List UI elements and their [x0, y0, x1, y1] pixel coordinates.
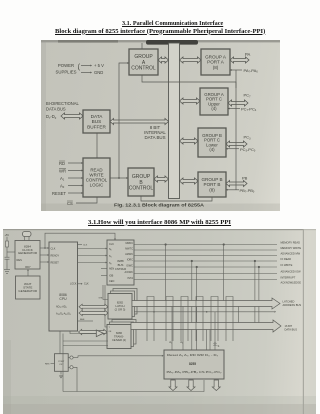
svg-text:8286: 8286 [116, 331, 122, 335]
block PORT B: GROUP B PORT B (8) [198, 172, 226, 197]
svg-text:S2: S2 [109, 262, 112, 266]
wire: group A control to port C upper (over bus) [142, 75, 236, 88]
svg-text:Fig. 12.3.1 Block diagram of 8: Fig. 12.3.1 Block diagram of 8255A [114, 203, 205, 208]
svg-text:IORC: IORC [127, 258, 133, 261]
svg-text:D7-D0: D7-D0 [46, 114, 57, 120]
svg-text:(4): (4) [209, 147, 215, 152]
bus arrow: internal bus to port A [180, 57, 202, 63]
stub IOB pin [101, 275, 107, 277]
pin CS input to rw logic [67, 197, 97, 206]
svg-text:PC3: PC3 [244, 135, 252, 141]
wire CLK 8284 to 8086 [40, 247, 49, 249]
wire lattice vertical pair 1 [147, 297, 154, 342]
ground: reset capacitor ground [4, 270, 10, 274]
wire: right vertical line [235, 70, 237, 190]
svg-text:SUPPLIES: SUPPLIES [55, 70, 76, 75]
block U-8086: 8086 CPU [49, 242, 78, 331]
svg-text:IOB: IOB [109, 275, 114, 278]
svg-text:PA: PA [245, 52, 250, 57]
label CLK stub on 8086 right edge [78, 245, 88, 247]
photo top edge shadow [41, 40, 280, 45]
block PORT C upper: GROUP A PORT C Upper (4) [200, 88, 228, 115]
wire tap A1 to 8255 [169, 307, 172, 351]
svg-text:S1: S1 [109, 255, 112, 259]
svg-text:INTERRUPT: INTERRUPT [281, 276, 296, 280]
svg-text:S: S [218, 344, 220, 348]
pin RD input to rw logic [59, 161, 83, 166]
bus arrow: port A output of 8255 [169, 380, 177, 391]
wire lattice vertical pair 3 [181, 297, 188, 342]
wire: data bus buffer to rw control logic [96, 133, 98, 158]
control bus line MEMORY WRITE [134, 246, 301, 250]
block U-8284: 8284 CLOCK GENERATOR [15, 241, 40, 270]
label: 8 BIT INTERNAL DATA BUS [144, 125, 166, 140]
junction drop IOWC right [258, 266, 260, 330]
block U-DBB: DATA BUS BUFFER [83, 110, 110, 133]
svg-text:CLK: CLK [109, 243, 114, 246]
block U-8255: 8255 PPI [164, 350, 224, 379]
control bus line IO WRITE [134, 263, 293, 267]
control bus line INTERRUPT [134, 276, 301, 285]
heading: section title [122, 20, 223, 27]
stub AEN pin [101, 268, 107, 270]
wire small box lower pin run [73, 367, 77, 391]
svg-text:(2 OR 3): (2 OR 3) [115, 308, 126, 312]
wire status S0 8086 to 8288 [78, 248, 108, 250]
svg-text:RESET: RESET [52, 191, 66, 196]
bus arrow: D7-D0 to data bus buffer [61, 113, 83, 119]
pin WR input to rw logic [59, 168, 83, 173]
wire lattice vertical pair 4 [196, 297, 203, 342]
svg-text:BHE: BHE [80, 319, 85, 321]
wire gate input from 8086 bottom [70, 331, 96, 334]
block U-GB: GROUP B CONTROL [128, 168, 154, 196]
label RES of small box [45, 364, 55, 366]
bus arrow: 8086 addr/status second [79, 310, 108, 315]
svg-text:CONTROL: CONTROL [131, 66, 156, 72]
bus arrow: port B output of 8255 [187, 380, 195, 391]
svg-text:IO WRITE: IO WRITE [281, 263, 293, 267]
svg-text:WR: WR [59, 168, 66, 173]
wire CLK loop over 8086 to 8288 [44, 233, 116, 249]
junction drop IOWC to 8255 WR [196, 266, 198, 350]
svg-text:RES: RES [17, 258, 23, 262]
wire reset to 8255 [73, 355, 163, 358]
bus channel: latched address bus [132, 298, 301, 309]
svg-text:READY: READY [51, 255, 60, 258]
block U-8286 transceiver stack shadows [110, 320, 137, 347]
bus arrow: port C output of 8255 [212, 380, 220, 391]
svg-text:A0: A0 [60, 183, 65, 189]
block U-8282: 8282 LATCH (2 OR 3) [108, 294, 132, 320]
svg-text:+5V: +5V [5, 234, 10, 237]
junction drop from MRDC at x=165.6 [165, 243, 167, 300]
svg-text:DATA BUS: DATA BUS [46, 107, 66, 112]
control bus line ADVANCED MW [134, 252, 301, 256]
svg-text:ADVANCED IOW: ADVANCED IOW [281, 270, 302, 274]
svg-text:AEN: AEN [109, 268, 114, 271]
wire bottom long run to 8255 [63, 380, 204, 392]
junction drop from MRDC at x=223.7 [223, 243, 225, 300]
wire status S2 8086 to 8288 [78, 262, 108, 264]
pin RESET input to rw logic [52, 191, 83, 196]
photo 2 bottom shadow [3, 340, 316, 414]
svg-text:GENERATOR: GENERATOR [18, 251, 38, 255]
svg-text:POWER: POWER [58, 63, 74, 68]
block U-8282 latch stack shadows [111, 289, 138, 317]
wire RESET 8284 to 8086 [40, 261, 49, 263]
svg-text:(8): (8) [209, 187, 215, 192]
svg-text:S0: S0 [109, 248, 112, 252]
svg-text:MWTC: MWTC [125, 247, 133, 250]
photo 2 page edge line [303, 229, 316, 414]
wire: control trunk (rw logic to group controls) [110, 62, 129, 179]
wire transceiver area down-left 1 [62, 334, 64, 392]
svg-text:CPU: CPU [59, 297, 67, 301]
svg-text:LATCHED: LATCHED [283, 300, 295, 304]
wire tap A0 to 8255 [180, 307, 183, 351]
svg-text:CLK: CLK [51, 248, 56, 251]
pin PB and PB7-PB0 labels [226, 176, 255, 194]
svg-text:IO READ: IO READ [281, 257, 292, 261]
svg-text:PB: PB [242, 176, 248, 181]
svg-text:Reset A₁ A₀ RD WR D₀ - D₇: Reset A₁ A₀ RD WR D₀ - D₇ [167, 353, 218, 357]
bus arrow: internal bus to port C lower [180, 138, 199, 144]
svg-text:GND: GND [94, 70, 103, 75]
svg-text:A19/S6-A16/S3: A19/S6-A16/S3 [56, 313, 71, 317]
svg-text:MRDC: MRDC [126, 242, 134, 245]
svg-text:CLK: CLK [83, 245, 88, 247]
block PORT A: GROUP A PORT A (8) [201, 49, 230, 75]
svg-text:INTA: INTA [127, 277, 133, 280]
wire: group B control bottom link [141, 196, 212, 201]
junction drop IORC right [254, 260, 256, 330]
svg-text:(4): (4) [211, 106, 217, 111]
block U-WSG: WAIT STATE GENERATOR [16, 276, 41, 299]
block reset circuit box [55, 354, 69, 372]
svg-text:16 BIT: 16 BIT [285, 324, 293, 328]
bus arrow: port C lower to PC pins [226, 141, 247, 147]
block U-8286: 8286 TRANSCEIVER (2) [107, 325, 131, 349]
svg-text:(8): (8) [213, 65, 219, 70]
svg-text:CEIVER (2): CEIVER (2) [112, 338, 126, 342]
wire LOCK stub on 8086 right edge [70, 282, 89, 285]
svg-text:CS: CS [67, 201, 73, 206]
svg-text:PC3-PC0: PC3-PC0 [240, 147, 256, 153]
svg-text:A1: A1 [169, 340, 172, 345]
bus arrow: port C upper to PC pins [228, 100, 248, 106]
wire tap CS to 8255 with break [214, 312, 220, 350]
svg-text:AD15-AD0: AD15-AD0 [56, 306, 67, 310]
bus arrow: group A control to internal bus [158, 57, 169, 63]
svg-text:RDY: RDY [25, 265, 31, 269]
pin A0 input to rw logic [60, 183, 83, 189]
bus: 8-bit internal data bus (vertical) [169, 43, 180, 199]
svg-text:AMWC: AMWC [125, 253, 133, 256]
svg-text:DATA BUS: DATA BUS [285, 328, 298, 332]
pin PC7 and PC7-PC4 labels [228, 93, 257, 113]
block PORT C lower: GROUP B PORT C Lower (4) [198, 128, 226, 157]
wire: top stub into group A control [141, 43, 143, 49]
svg-text:MEMORY WRITE: MEMORY WRITE [281, 246, 302, 250]
bus arrow: group B control to internal bus [154, 176, 169, 182]
wire 8086 bottom to small box [59, 331, 61, 354]
svg-text:MEMORY READ: MEMORY READ [281, 241, 301, 245]
svg-text:PC7: PC7 [244, 93, 252, 99]
svg-text:IOWC: IOWC [126, 264, 133, 267]
svg-text:PA₀-PA₇ PB₀-PB₇ CS PC₀-PC₇: PA₀-PA₇ PB₀-PB₇ CS PC₀-PC₇ [167, 370, 222, 374]
svg-text:+ 5 V: + 5 V [94, 63, 104, 68]
bus arrow: internal bus to port B [180, 178, 199, 184]
bus arrow: internal bus to port C upper [180, 98, 201, 104]
photo 2: scanned figure of 8086 interfaced with 8255 [3, 229, 316, 414]
wire thin arrow between channels [134, 311, 276, 313]
wire lattice vertical pair 2 [166, 297, 173, 342]
wire READY 8284 to 8086 [40, 254, 49, 256]
wire vertical link channels right [238, 307, 240, 323]
svg-text:ADDRESS BUS: ADDRESS BUS [283, 303, 302, 307]
wire DEN from 8288 down to transceiver [105, 285, 107, 327]
svg-text:RESET: RESET [51, 262, 60, 265]
reset RC network: +5V resistor switch capacitor [5, 234, 16, 270]
block U-8288: 8288 BUS CONTROLLER [107, 240, 134, 285]
svg-text:PORT: PORT [58, 361, 65, 363]
crystal X1 [23, 232, 32, 241]
bus channel: 16 bit data bus [131, 320, 297, 332]
wire tap data pair to 8255 [207, 330, 211, 351]
svg-text:LOGIC: LOGIC [90, 183, 104, 188]
svg-text:BUFFER: BUFFER [87, 124, 106, 129]
svg-text:PC7-PC4: PC7-PC4 [241, 106, 257, 112]
ground: small box ground arrow [60, 371, 63, 378]
svg-text:A0: A0 [180, 340, 183, 345]
pin PA and PA7-PA0 labels [230, 52, 258, 74]
bus arrow: 8086 data to transceivers [79, 329, 108, 334]
svg-text:AIOWC: AIOWC [125, 271, 134, 274]
wire STB from 8288 to latch [99, 285, 109, 300]
label: POWER SUPPLIES with +5V and GND arrows [55, 63, 104, 75]
wire RDY: wait state generator to 8284 [27, 269, 29, 276]
svg-text:PB7-PB0: PB7-PB0 [240, 188, 255, 194]
control bus line MEMORY READ [134, 241, 300, 245]
svg-text:CLK: CLK [84, 283, 89, 286]
wire status S1 8086 to 8288 [78, 255, 108, 257]
wire BHE stub from 8086 [78, 319, 94, 321]
block U-GA: GROUP A CONTROL [129, 49, 158, 75]
junction drop IORC to 8255 RD [191, 260, 193, 350]
pin circle upper of small box [68, 356, 73, 359]
bus arrow: port A to PA pins [230, 57, 249, 63]
wire transceiver bottom link 2 [63, 345, 108, 347]
svg-text:STB: STB [99, 298, 104, 300]
gate: inverter to transceiver [96, 330, 107, 337]
photo 1 bottom shadow [41, 41, 280, 211]
svg-text:ACKNOWLEDGE: ACKNOWLEDGE [281, 281, 302, 285]
label: BI-DIRECTIONAL DATA BUS D7-D0 [46, 101, 79, 120]
svg-text:DATA BUS: DATA BUS [144, 135, 165, 140]
svg-text:RD: RD [59, 161, 65, 166]
svg-text:CONTROL: CONTROL [129, 186, 154, 192]
svg-text:A1: A1 [60, 176, 65, 182]
photo 2 top edge line [3, 229, 316, 230]
svg-text:LOCK: LOCK [70, 282, 77, 285]
svg-text:RES: RES [45, 364, 50, 366]
svg-text:8255: 8255 [189, 362, 196, 366]
wire transceiver bottom link 1 [63, 340, 108, 342]
svg-text:TRANS-: TRANS- [114, 334, 124, 338]
pin circle lower of small box [68, 366, 73, 369]
svg-text:CKT: CKT [59, 364, 64, 366]
caption: Fig. 12.3.1 Block diagram of 8255A [114, 203, 205, 208]
pin PC3 and PC3-PC0 labels [226, 135, 256, 153]
control bus line ADVANCED IOW [134, 270, 301, 274]
control bus line IO READ [134, 257, 291, 261]
bus arrow: 8086 AD to latches [79, 304, 108, 309]
svg-text:PA7-PA0: PA7-PA0 [244, 68, 259, 74]
wire lattice vertical pair 6 [226, 297, 233, 342]
svg-text:GENERATOR: GENERATOR [18, 289, 38, 293]
photo 1: scanned figure of 8255A block diagram [41, 40, 280, 211]
svg-text:BI-DIRECTIONAL: BI-DIRECTIONAL [46, 101, 79, 106]
heading: question 3.1 8086 with 8255 [88, 219, 231, 226]
block U-RW: READ WRITE CONTROL LOGIC [83, 158, 110, 197]
heading: block diagram subtitle [55, 28, 265, 35]
svg-text:ADVANCED MW: ADVANCED MW [281, 252, 301, 256]
wire lattice vertical pair 5 [211, 297, 218, 342]
svg-text:CEN: CEN [109, 280, 114, 283]
pin A1 input to rw logic [60, 176, 83, 182]
bus arrow: port B to PB pins [226, 181, 247, 187]
bus arrow: data bus buffer to internal bus [110, 119, 169, 125]
